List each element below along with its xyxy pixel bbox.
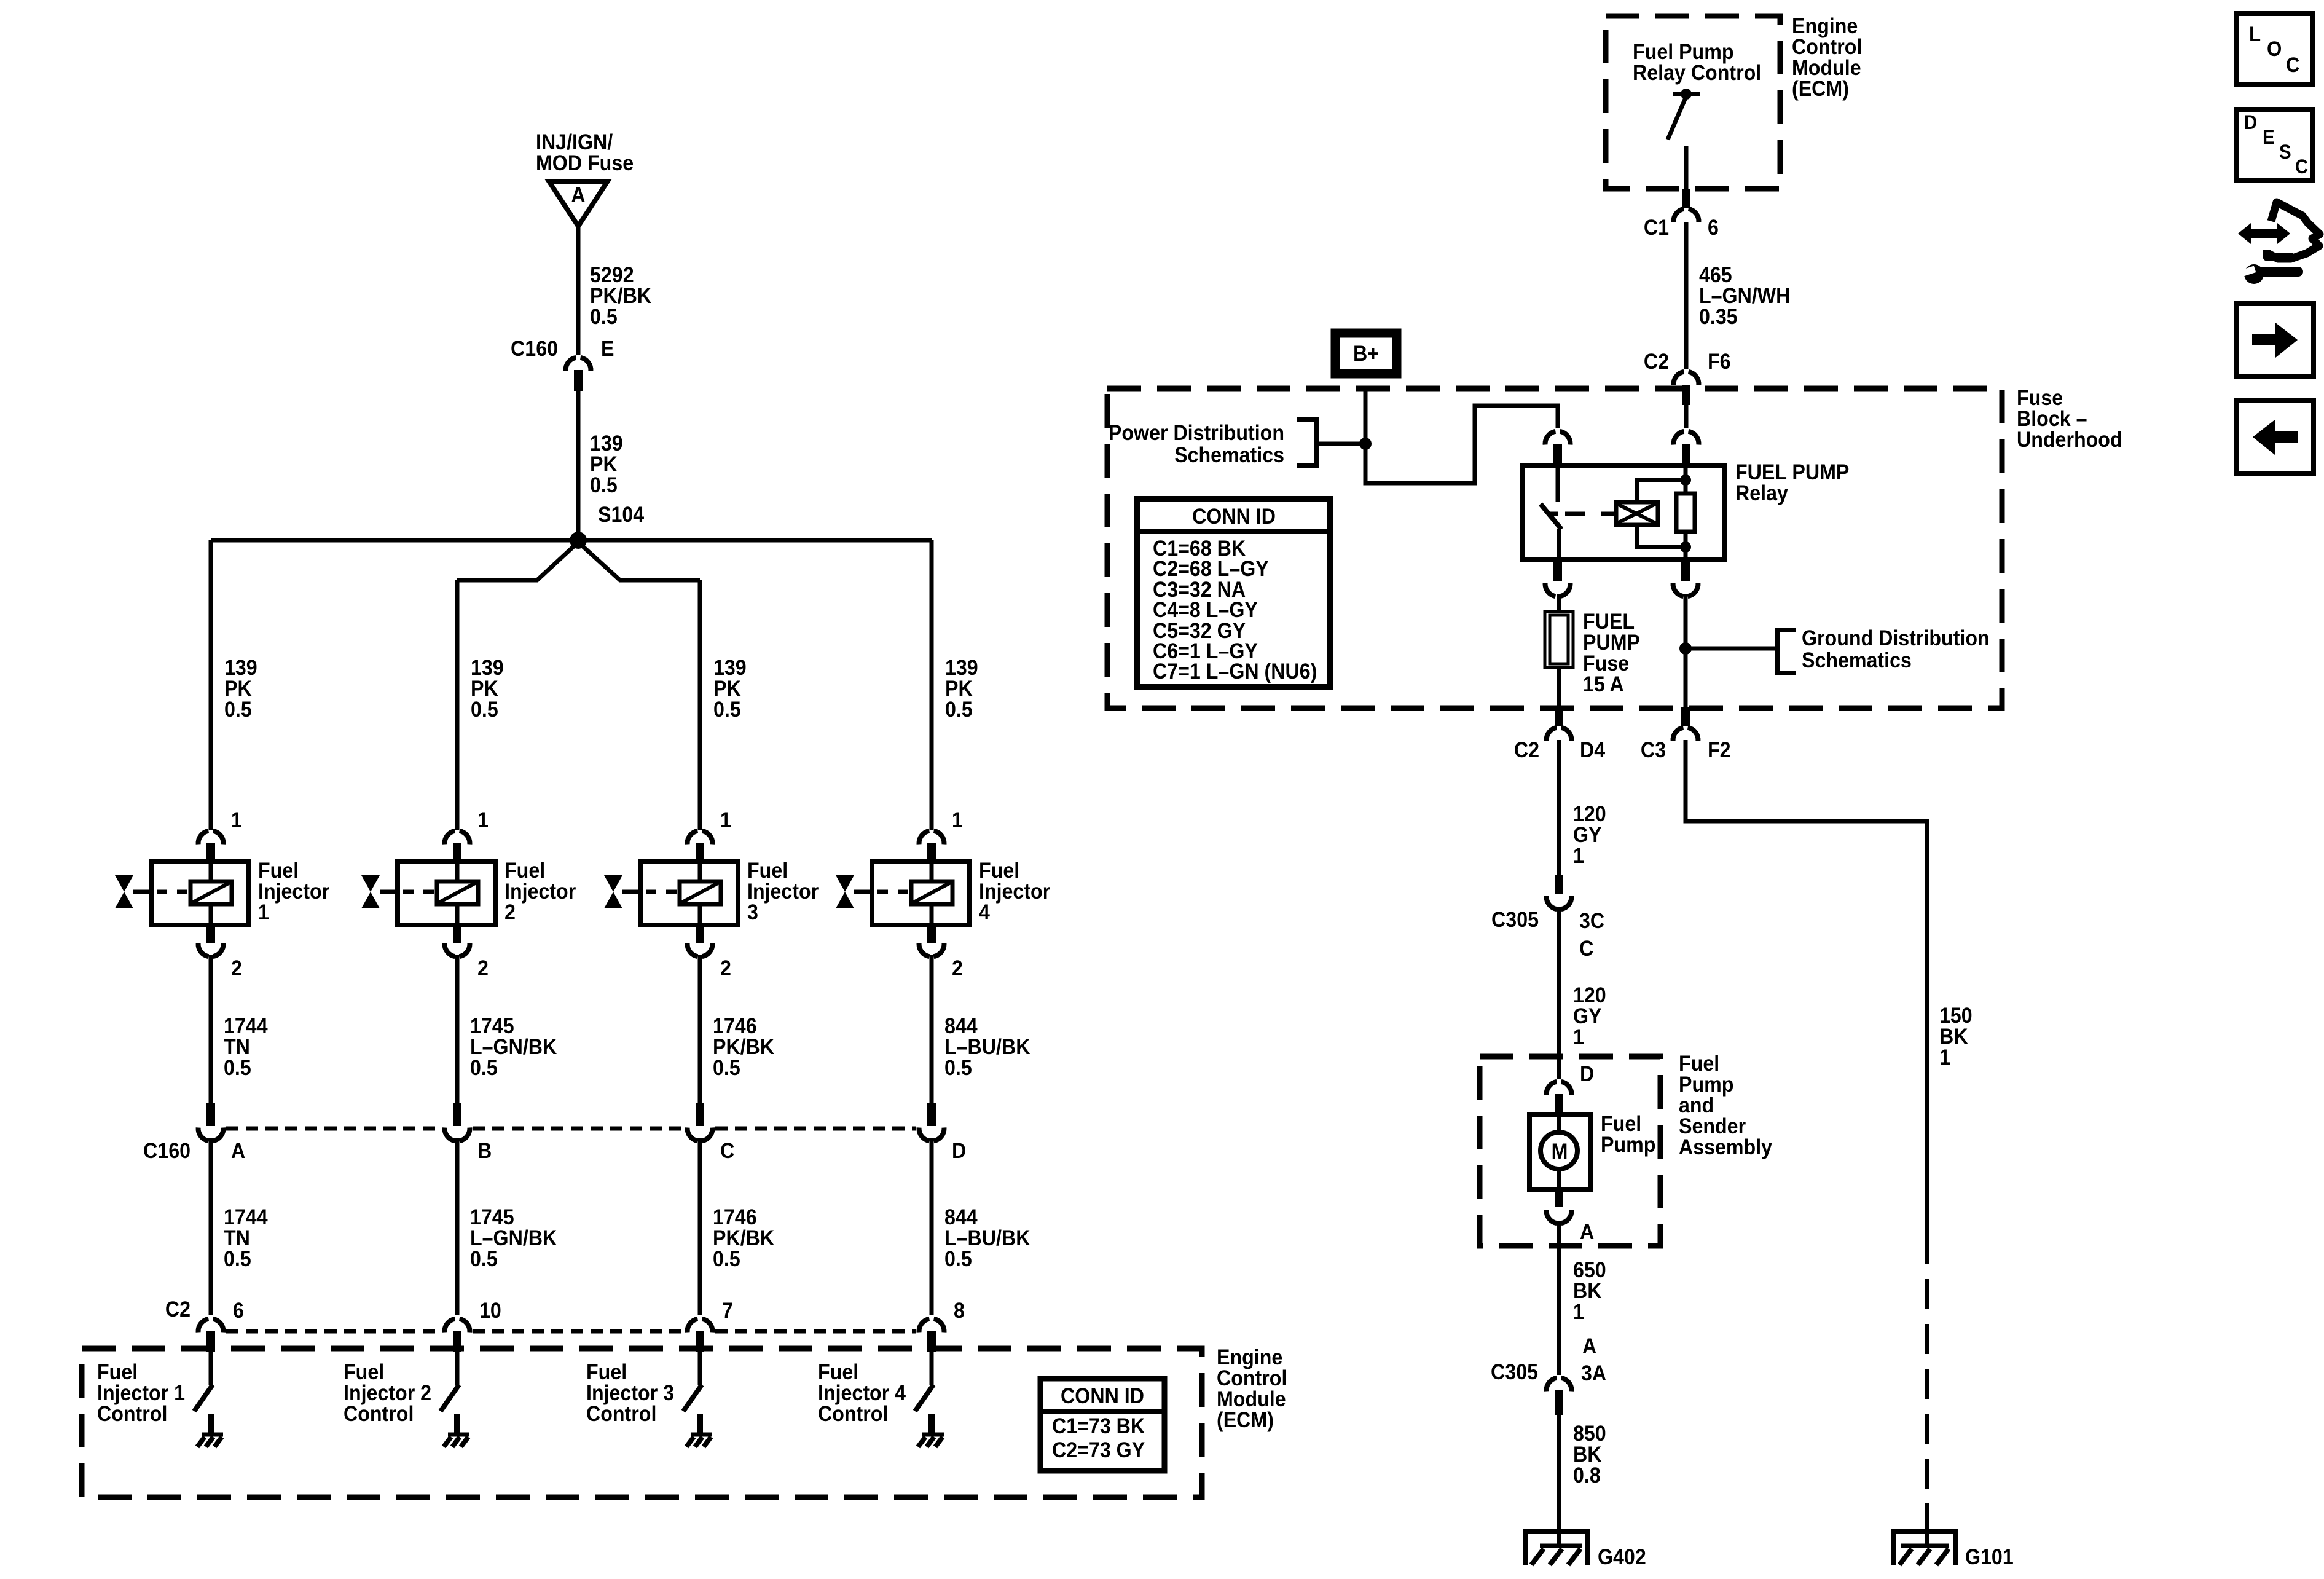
injector 1 valve symbol [115,875,133,908]
fuse FUEL PUMP Fuse 15 A [1545,612,1573,667]
svg-text:1746: 1746 [713,1206,757,1230]
splice S104 [570,532,587,549]
svg-text:1: 1 [952,809,963,833]
icon diagnostic (arrow, harness, wrench) [2238,202,2320,284]
svg-text:Injector: Injector [258,880,329,904]
svg-text:Control: Control [1792,36,1862,60]
wire fuse to C2 D4 [1557,667,1561,707]
svg-text:M: M [1552,1140,1568,1164]
connector C160 pin A [198,1103,224,1141]
svg-text:1: 1 [258,901,269,925]
svg-text:1: 1 [1573,1301,1584,1325]
svg-text:S104: S104 [598,503,644,527]
injector 3 valve symbol [604,875,622,908]
svg-text:C2: C2 [1644,350,1669,374]
svg-text:Module: Module [1792,57,1861,81]
wire 1745 L-GN/BK 0.5 upper [455,955,460,1103]
svg-text:0.5: 0.5 [590,474,618,498]
wire 650 BK 1 [1557,1221,1561,1375]
icon forward arrow box [2237,304,2314,377]
label wire 1745 L-GN/BK 0.5 upper [470,1015,557,1081]
svg-text:(ECM): (ECM) [1217,1409,1274,1433]
svg-text:O: O [2267,37,2282,61]
connector relay pin (top right, 85) [1674,431,1699,465]
switch Fuel Injector 1 Control driver [194,1352,213,1411]
svg-text:1746: 1746 [713,1015,757,1039]
svg-text:Injector: Injector [747,880,819,904]
wire 5292 PK/BK 0.5 [576,226,581,355]
connector injector 4 pin 1 [919,831,944,863]
wire to Ground Distribution Schematics [1686,647,1777,651]
svg-text:850: 850 [1573,1422,1606,1446]
svg-text:Fuel: Fuel [97,1361,138,1385]
C160 label (lower row) [143,1140,190,1164]
svg-text:C160: C160 [511,337,558,361]
svg-text:INJ/IGN/: INJ/IGN/ [536,131,613,155]
svg-text:L–BU/BK: L–BU/BK [944,1227,1030,1251]
svg-text:(ECM): (ECM) [1792,77,1849,101]
svg-text:BK: BK [1573,1443,1601,1467]
svg-text:Fuel: Fuel [343,1361,384,1385]
svg-text:PK: PK [590,453,618,477]
svg-text:PK/BK: PK/BK [713,1036,774,1060]
fuel injector 1 [133,862,249,925]
svg-text:139: 139 [713,656,747,680]
svg-text:Block –: Block – [2017,408,2087,431]
svg-text:C2=73 GY: C2=73 GY [1052,1439,1145,1463]
relay linkage dashed line [1565,512,1616,516]
svg-text:120: 120 [1573,803,1606,827]
svg-text:G402: G402 [1598,1546,1646,1570]
CONN ID table (fuse block) [1137,499,1330,687]
ECM C2 pin 8 connector [919,1319,944,1352]
fuel pump pin D label [1580,1063,1594,1087]
label wire 844 L-BU/BK 0.5 upper [944,1015,1030,1081]
svg-text:0.5: 0.5 [470,1057,498,1081]
injector 2 valve symbol [361,875,380,908]
svg-text:C4=8 L–GY: C4=8 L–GY [1153,599,1258,623]
svg-text:A: A [571,184,585,208]
svg-text:0.5: 0.5 [224,1057,251,1081]
wire from B+ feed [1365,391,1558,483]
ground (ECM internal, injector 2) [444,1414,469,1447]
label wire 1744 TN 0.5 lower [224,1206,268,1272]
svg-text:CONN ID: CONN ID [1061,1385,1144,1409]
connector C160 pin D [919,1103,944,1141]
svg-text:139: 139 [590,432,623,456]
svg-text:Fuel: Fuel [504,859,545,883]
svg-text:CONN ID: CONN ID [1192,505,1276,529]
svg-text:8: 8 [954,1299,965,1323]
wire 120 GY 1 (lower) [1557,907,1561,1079]
svg-text:GY: GY [1573,824,1601,848]
svg-text:3: 3 [747,901,758,925]
label C160 E [511,337,614,361]
label pin A / 3A [1491,1335,1606,1386]
label Fuel Injector 2 [504,859,576,925]
wire 1745 L-GN/BK 0.5 lower [455,1138,460,1315]
label Engine Control Module (ECM) top [1792,15,1862,101]
svg-text:PK: PK [945,677,973,701]
wire relay 30 to ground distribution junction [1684,594,1688,707]
wire 1746 PK/BK 0.5 upper [698,955,702,1103]
svg-text:1: 1 [1573,845,1584,868]
wire 139 PK 0.5 branch to injector 3 [698,580,702,830]
svg-text:1: 1 [1573,1026,1584,1050]
svg-text:F6: F6 [1708,350,1731,374]
svg-text:L–GN/WH: L–GN/WH [1699,285,1790,309]
connector injector 2 pin 2 [445,925,470,956]
C160 pin letter C [720,1140,734,1164]
connector C2 pin D4 [1547,707,1572,741]
svg-text:C: C [2286,53,2300,77]
svg-text:S: S [2279,141,2291,163]
fuel injector 3 [622,862,738,925]
C160 pin letter B [477,1140,492,1164]
bracket Power Distribution Schematics [1297,420,1316,466]
connector C160 pin E [566,358,591,391]
wire 1746 PK/BK 0.5 lower [698,1138,702,1315]
svg-text:1: 1 [1939,1046,1950,1070]
svg-text:1744: 1744 [224,1206,268,1230]
svg-text:0.5: 0.5 [713,698,741,722]
svg-text:Injector 2: Injector 2 [343,1382,431,1406]
label Fuel Injector 3 Control [586,1361,674,1427]
svg-text:2: 2 [952,957,963,981]
svg-text:L–GN/BK: L–GN/BK [470,1227,557,1251]
svg-text:FUEL: FUEL [1583,610,1635,634]
switch Fuel Injector 4 Control driver [915,1352,933,1411]
wire relay top right pin [1684,405,1689,428]
svg-text:139: 139 [471,656,504,680]
label Fuse Block - Underhood [2017,387,2122,452]
svg-text:Fuel: Fuel [1601,1112,1641,1136]
svg-text:Schematics: Schematics [1174,444,1284,468]
svg-text:FUEL PUMP: FUEL PUMP [1735,461,1849,485]
svg-text:Pump: Pump [1601,1133,1655,1157]
injector 4 valve symbol [836,875,854,908]
svg-text:C: C [720,1140,734,1164]
svg-text:C1: C1 [1644,216,1669,240]
svg-text:Engine: Engine [1792,15,1858,39]
svg-text:0.5: 0.5 [945,698,973,722]
label C305 3C / C [1491,908,1604,961]
connector C305 pin 3A [1547,1378,1572,1415]
label Fuel Injector 4 [979,859,1050,925]
connector C160 pin C [688,1103,713,1141]
svg-text:Assembly: Assembly [1679,1136,1772,1160]
connector C160 pin B [445,1103,470,1141]
svg-text:1745: 1745 [470,1206,514,1230]
svg-text:C160: C160 [143,1140,190,1164]
switch Fuel Injector 2 Control driver [441,1352,459,1411]
svg-text:D: D [1580,1063,1594,1087]
connector injector 3 pin 1 [688,831,713,863]
ECM module box (bottom left) [82,1349,1202,1497]
wire 139 PK 0.5 (main) [576,391,581,540]
svg-text:D: D [2244,111,2257,133]
injector 3 pin 1 label [720,809,731,833]
injector 4 pin 2 label [952,957,963,981]
ECM module box (top right, Fuel Pump Relay Control) [1606,16,1780,189]
svg-text:0.5: 0.5 [713,1248,740,1272]
ground G402 [1523,1529,1590,1565]
svg-text:PUMP: PUMP [1583,631,1640,655]
svg-text:0.5: 0.5 [944,1248,972,1272]
svg-text:Control: Control [818,1403,888,1427]
wire 120 GY 1 (upper) [1557,740,1561,875]
injector 2 pin 2 label [477,957,489,981]
svg-text:1: 1 [231,809,242,833]
wire S104 branch to column 3 [579,543,700,580]
ECM C2 pin number 6 [233,1299,244,1323]
svg-text:C2: C2 [165,1298,190,1322]
svg-text:Fuel: Fuel [818,1361,858,1385]
fuel injector 4 [854,862,970,925]
ECM C2 pin number 8 [954,1299,965,1323]
label wire 139 PK 0.5 (branch 4) [945,656,978,722]
svg-text:C2=68 L–GY: C2=68 L–GY [1153,557,1269,581]
label wire 1746 PK/BK 0.5 lower [713,1206,774,1272]
wire bus from S104 to injector columns [211,538,932,543]
svg-text:Fuel: Fuel [586,1361,627,1385]
label wire 844 L-BU/BK 0.5 lower [944,1206,1030,1272]
connector relay pin (bottom right, 30) [1673,562,1698,596]
fuel pump and sender assembly box [1480,1057,1660,1246]
svg-text:C305: C305 [1491,908,1539,932]
fuel injector 2 [380,862,495,925]
injector 1 pin 2 label [231,957,242,981]
svg-text:Fuel Pump: Fuel Pump [1633,41,1733,65]
ECM C2 pin 6 connector [198,1319,224,1352]
injector 2 pin 1 label [477,809,489,833]
switch Fuel Pump Relay Control driver [1668,89,1700,191]
svg-text:C2: C2 [1514,739,1539,763]
svg-text:139: 139 [224,656,257,680]
svg-text:C3: C3 [1641,739,1666,763]
svg-text:E: E [2263,126,2275,148]
svg-text:2: 2 [720,957,731,981]
label C3 F2 [1641,739,1731,763]
label Fuel Injector 3 [747,859,819,925]
label Fuel Pump Relay Control [1633,41,1761,85]
connector C2 pin F6 [1674,372,1699,405]
C160 pin letter A [231,1140,245,1164]
svg-text:C1=73 BK: C1=73 BK [1052,1415,1145,1439]
label C2 D4 [1514,739,1606,763]
icon LOC box [2237,14,2313,84]
label wire 139 PK 0.5 (main) [590,432,623,498]
connector injector 1 pin 1 [198,831,224,863]
svg-text:1: 1 [477,809,489,833]
svg-text:5292: 5292 [590,264,634,288]
svg-text:Fuse: Fuse [2017,387,2063,411]
connector injector 3 pin 2 [688,925,713,956]
ground (ECM internal, injector 4) [918,1414,944,1447]
svg-text:Control: Control [97,1403,167,1427]
svg-text:Injector 4: Injector 4 [818,1382,906,1406]
svg-text:Relay Control: Relay Control [1633,61,1761,85]
svg-text:Control: Control [1217,1367,1287,1391]
svg-text:A: A [231,1140,245,1164]
svg-text:0.5: 0.5 [224,1248,251,1272]
svg-text:0.35: 0.35 [1699,305,1738,329]
wire 1744 TN 0.5 lower [209,1138,213,1315]
svg-text:Underhood: Underhood [2017,428,2122,452]
ground (ECM internal, injector 3) [686,1414,712,1447]
svg-text:0.5: 0.5 [944,1057,972,1081]
svg-text:465: 465 [1699,264,1732,288]
ECM C2 pin number 10 [479,1299,501,1323]
svg-text:Fuel: Fuel [1679,1052,1719,1076]
svg-text:Pump: Pump [1679,1073,1733,1097]
wire 465 L-GN/WH 0.35 [1684,222,1689,369]
label wire 150 BK 1 [1939,1004,1973,1070]
fuel pump motor M1 [1529,1115,1590,1189]
ECM C2 inline connector dashed row [226,1329,916,1334]
svg-text:PK: PK [713,677,741,701]
label Fuel Injector 1 [258,859,329,925]
svg-text:C: C [1579,937,1593,961]
svg-text:150: 150 [1939,1004,1973,1028]
C2 label (ECM row) [165,1298,190,1322]
label Fuel Injector 1 Control [97,1361,185,1427]
svg-text:Injector: Injector [504,880,576,904]
svg-text:PK/BK: PK/BK [713,1227,774,1251]
svg-text:PK: PK [471,677,498,701]
fuse INJ/IGN/MOD Fuse label [536,131,634,176]
svg-text:1745: 1745 [470,1015,514,1039]
connector C1 pin 6 [1674,189,1699,222]
svg-text:PK/BK: PK/BK [590,285,651,309]
wire 844 L-BU/BK 0.5 lower [930,1138,934,1315]
svg-text:0.5: 0.5 [224,698,252,722]
label Power Distribution Schematics [1109,422,1284,468]
ECM C2 pin 10 connector [445,1319,470,1352]
wire 850 BK 0.8 [1557,1415,1561,1530]
svg-text:7: 7 [722,1299,733,1323]
ECM C2 pin number 7 [722,1299,733,1323]
svg-text:Fuel: Fuel [747,859,788,883]
wire 139 PK 0.5 branch to injector 2 [455,580,460,830]
svg-text:2: 2 [504,901,516,925]
svg-text:L–GN/BK: L–GN/BK [470,1036,557,1060]
svg-text:A: A [1582,1335,1596,1359]
wire 1744 TN 0.5 upper [209,955,213,1103]
svg-text:15 A: 15 A [1583,673,1624,697]
label Fuel Injector 4 Control [818,1361,906,1427]
label wire 120 GY 1 (upper) [1573,803,1606,868]
label G101 [1965,1546,2014,1570]
svg-text:1744: 1744 [224,1015,268,1039]
connector fuel pump pin A [1547,1189,1572,1223]
CONN ID table (ECM) [1040,1379,1164,1471]
svg-text:D4: D4 [1580,739,1605,763]
svg-text:TN: TN [224,1036,250,1060]
svg-text:120: 120 [1573,984,1606,1008]
label Fuel Pump [1601,1112,1655,1157]
svg-text:Control: Control [343,1403,414,1427]
icon DESC box [2237,109,2313,180]
fuse INJ/IGN/MOD Fuse (triangle A) [549,182,607,226]
svg-text:1: 1 [720,809,731,833]
svg-text:3A: 3A [1581,1362,1606,1386]
label Fuel Pump and Sender Assembly [1679,1052,1772,1160]
svg-text:139: 139 [945,656,978,680]
label FUEL PUMP Relay [1735,461,1849,506]
svg-text:6: 6 [1708,216,1719,240]
bracket Ground Distribution Schematics [1777,630,1796,673]
injector 3 pin 2 label [720,957,731,981]
svg-text:Relay: Relay [1735,482,1788,506]
fuse block underhood box [1107,388,2002,708]
svg-text:0.5: 0.5 [713,1057,740,1081]
splice S104 label [598,503,644,527]
label C1 6 [1644,216,1719,240]
connector fuel pump pin D [1547,1082,1572,1116]
svg-text:PK: PK [224,677,252,701]
svg-text:C305: C305 [1491,1361,1538,1385]
connector injector 2 pin 1 [445,831,470,863]
label wire 5292 PK/BK 0.5 [590,264,651,329]
svg-text:2: 2 [231,957,242,981]
connector C305 pin 3C [1547,875,1572,909]
svg-text:Injector 1: Injector 1 [97,1382,185,1406]
svg-text:BK: BK [1573,1280,1601,1304]
svg-text:Fuel: Fuel [979,859,1019,883]
svg-text:Ground Distribution: Ground Distribution [1802,627,1990,651]
svg-text:B: B [477,1140,492,1164]
svg-text:G101: G101 [1965,1546,2014,1570]
svg-text:2: 2 [477,957,489,981]
wire S104 branch to column 2 [457,543,577,580]
label Fuel Injector 2 Control [343,1361,431,1427]
switch Fuel Injector 3 Control driver [683,1352,702,1411]
svg-text:and: and [1679,1094,1714,1118]
label wire 139 PK 0.5 (branch 2) [471,656,504,722]
svg-text:6: 6 [233,1299,244,1323]
label wire 1746 PK/BK 0.5 upper [713,1015,774,1081]
junction node on B+ feed [1359,438,1372,450]
label wire 139 PK 0.5 (branch 3) [713,656,747,722]
svg-text:Injector 3: Injector 3 [586,1382,674,1406]
svg-text:Fuel: Fuel [258,859,299,883]
svg-text:L: L [2249,22,2261,46]
icon back arrow box [2237,401,2314,474]
connector relay pin (top left, 86) [1545,431,1571,465]
svg-text:Sender: Sender [1679,1115,1746,1139]
connector injector 4 pin 2 [919,925,944,956]
label Engine Control Module (ECM) bottom [1217,1346,1287,1433]
wire 139 PK 0.5 branch to injector 1 [209,540,213,830]
svg-text:0.8: 0.8 [1573,1464,1601,1488]
svg-text:BK: BK [1939,1025,1968,1049]
connector C3 pin F2 [1673,707,1698,741]
svg-text:TN: TN [224,1227,250,1251]
label wire 139 PK 0.5 (branch 1) [224,656,257,722]
svg-text:F2: F2 [1708,739,1731,763]
svg-text:E: E [601,337,614,361]
svg-text:Module: Module [1217,1388,1286,1412]
svg-text:B+: B+ [1353,342,1379,366]
wire to Power Distribution Schematics [1316,442,1365,446]
label C2 F6 [1644,350,1731,374]
label wire 465 L-GN/WH 0.35 [1699,264,1790,329]
svg-text:D: D [952,1140,966,1164]
ground (ECM internal, injector 1) [197,1414,223,1447]
svg-text:MOD Fuse: MOD Fuse [536,152,634,176]
svg-text:L–BU/BK: L–BU/BK [944,1036,1030,1060]
